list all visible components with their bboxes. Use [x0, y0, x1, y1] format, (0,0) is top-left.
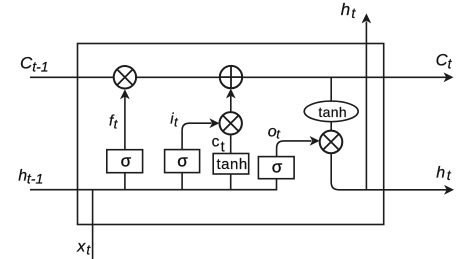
svg-text:tanh: tanh: [318, 104, 347, 120]
svg-text:σ: σ: [121, 151, 132, 170]
svg-text:h: h: [436, 164, 445, 181]
svg-text:t-1: t-1: [32, 59, 48, 75]
svg-text:h: h: [341, 0, 350, 19]
svg-text:C: C: [20, 54, 33, 73]
svg-text:σ: σ: [177, 151, 188, 170]
svg-text:c: c: [212, 133, 220, 150]
svg-text:h: h: [18, 168, 27, 185]
svg-text:x: x: [76, 239, 86, 256]
svg-text:t: t: [221, 140, 225, 156]
svg-text:tanh: tanh: [217, 156, 248, 173]
svg-text:t-1: t-1: [27, 171, 43, 187]
svg-text:σ: σ: [272, 157, 283, 176]
svg-text:C: C: [436, 52, 448, 70]
